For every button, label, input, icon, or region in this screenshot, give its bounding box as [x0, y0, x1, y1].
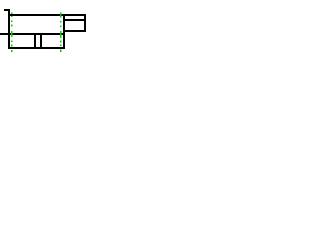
wire B: [0, 33, 65, 35]
node box U1 bottom edge: [63, 30, 86, 32]
node box U1 divider: [63, 19, 86, 21]
wire A over left guide junction: [11, 14, 13, 16]
background: [0, 0, 90, 60]
green guide left: [11, 13, 13, 53]
green guide right: [60, 13, 62, 53]
bottom rail: [8, 47, 65, 49]
vertical rail V1: [8, 9, 10, 49]
divider D2: [40, 33, 42, 49]
node box U1 right edge: [84, 14, 86, 32]
wire A: [10, 14, 65, 16]
divider D1: [34, 33, 36, 49]
node box U1 top edge: [63, 14, 86, 16]
flag top bar: [4, 9, 10, 11]
vertical wire V2: [63, 14, 65, 49]
